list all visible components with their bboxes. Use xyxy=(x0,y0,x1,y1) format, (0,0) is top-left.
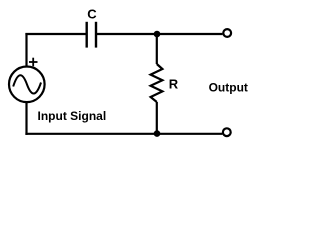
wire: left vertical from top-left corner down to source top xyxy=(25,33,27,66)
svg-text:Output: Output xyxy=(209,81,248,95)
AC source V1: circle xyxy=(9,67,45,103)
capacitor C xyxy=(87,22,96,48)
AC source V1: sine wave xyxy=(13,75,41,93)
svg-text:Input Signal: Input Signal xyxy=(38,109,107,123)
svg-text:C: C xyxy=(87,6,97,21)
wire: top horizontal, corner to capacitor left plate xyxy=(25,33,86,35)
plus polarity mark xyxy=(29,58,38,67)
output terminal: bottom open circle xyxy=(223,128,231,136)
svg-text:R: R xyxy=(169,76,179,91)
output terminal: top open circle xyxy=(223,29,231,37)
resistor R: top lead xyxy=(156,34,158,64)
wire: bottom horizontal, corner to output terminal xyxy=(25,133,222,135)
resistor R: bottom lead xyxy=(156,102,158,134)
wire: left vertical from source bottom to bottom-left corner xyxy=(25,102,27,135)
node: bottom junction dot xyxy=(154,130,161,137)
wire: top horizontal, capacitor right plate to output terminal xyxy=(97,33,222,35)
node: top junction dot xyxy=(154,31,161,38)
resistor R: zigzag xyxy=(151,64,163,102)
